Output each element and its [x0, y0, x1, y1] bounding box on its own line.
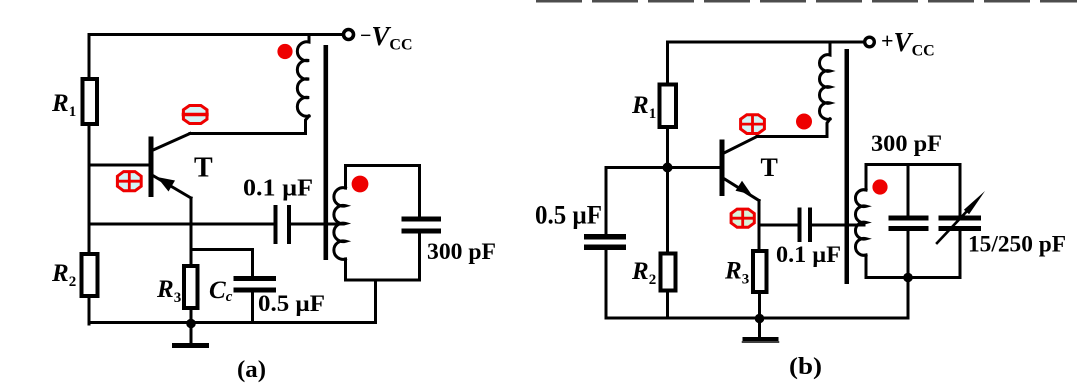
svg-text:(b): (b): [789, 354, 822, 380]
svg-text:T: T: [194, 153, 213, 184]
annotation plus symbol (b) emitter: [731, 209, 754, 227]
wire: (a) collector wire to transformer: [190, 116, 309, 134]
wire: (b) R2 top vertical: [666, 168, 669, 254]
resistor R2 (a): [82, 254, 98, 296]
polarity dot (b) primary: [796, 114, 812, 130]
wire: (a) emitter vertical: [190, 198, 193, 266]
wire: (b) emitter bus to coupling cap: [759, 224, 798, 227]
junction dot (a) ground node: [186, 319, 196, 329]
svg-text:0.1 µF: 0.1 µF: [776, 242, 841, 267]
resistor R1 (b): [660, 85, 677, 128]
tank circuit frame (a): [346, 166, 420, 281]
wire: (a) tank bottom stub: [374, 280, 377, 323]
wire: (a) base bus to coupling cap: [89, 223, 274, 226]
variable capacitor 15/250pF (b): [937, 191, 985, 243]
tank circuit frame (b): [866, 165, 960, 278]
resistor R3 (b): [753, 251, 767, 292]
transformer primary coil (a): [297, 35, 309, 117]
wire: (b) tank bottom stub: [907, 278, 910, 319]
wire: (b) emitter vertical: [758, 201, 761, 252]
wire: (b) R2 bottom to rail: [666, 291, 669, 319]
ground (b): [743, 319, 779, 343]
capacitor 0.1uF (b): [798, 208, 813, 243]
terminal: (a) -Vcc open circle: [344, 30, 354, 40]
resistor R3 (a): [184, 266, 198, 308]
wire: (b) R1 bottom to base node: [666, 127, 669, 168]
svg-text:15/250 pF: 15/250 pF: [968, 232, 1066, 257]
junction dot (b) base divider node: [663, 163, 673, 173]
wire: (a) base wire: [89, 164, 150, 167]
svg-text:T: T: [761, 153, 778, 182]
wire: (a) left vertical top segment: [88, 35, 91, 80]
resistor R1 (a): [83, 79, 98, 124]
wire: (b) R1 top vertical: [666, 42, 669, 85]
wire: (a) emitter branch to Cc: [191, 250, 253, 277]
svg-text:0.1 µF: 0.1 µF: [243, 176, 313, 202]
annotation plus symbol (a): [117, 172, 141, 191]
polarity dot (b) secondary: [872, 179, 887, 194]
wire: (b) left branch vertical to 0.5uF: [605, 168, 608, 235]
terminal: (b) +Vcc open circle: [865, 37, 875, 47]
transistor T (a) PNP: [151, 134, 191, 199]
svg-text:0.5 µF: 0.5 µF: [258, 291, 325, 316]
junction dot (b) ground node: [755, 314, 765, 324]
ground (a): [172, 324, 209, 349]
capacitor 300pF (a): [402, 217, 442, 234]
transformer primary coil (b): [819, 42, 830, 119]
wire: (b) 0.5uF bottom to rail: [605, 250, 608, 318]
annotation plus symbol (b) collector: [741, 115, 765, 134]
transformer core bar (b): [845, 49, 850, 284]
svg-text:300 pF: 300 pF: [871, 131, 942, 156]
junction dot (b) tank bottom node: [903, 273, 913, 283]
svg-text:(a): (a): [237, 357, 266, 383]
polarity dot (a) primary: [277, 44, 292, 59]
svg-text:300 pF: 300 pF: [427, 239, 496, 264]
wire: (b) base wire: [606, 166, 720, 169]
transformer core bar (a): [324, 45, 329, 260]
wire: (b) R3 bottom to rail: [758, 292, 761, 318]
wire: (a) top supply rail: [89, 33, 342, 36]
capacitor 0.5uF (b): [584, 234, 626, 250]
polarity dot (a) secondary: [352, 176, 369, 193]
wire: (a) Cc bottom to rail: [251, 293, 254, 323]
top dashed rule: [536, 0, 1077, 2]
wire: (a) R3 bottom to rail: [190, 308, 193, 323]
wire: (a) left vertical middle segment: [88, 124, 91, 254]
wire: (b) bottom rail: [606, 317, 908, 320]
wire: (b) top supply rail: [668, 41, 863, 44]
capacitor Cc (a): [234, 276, 277, 293]
wire: (a) bottom rail: [89, 321, 376, 324]
capacitor 0.1uF (a): [274, 205, 292, 244]
wire: (b) cap to tank tap: [812, 224, 864, 227]
transformer secondary coil (b): [855, 190, 866, 256]
capacitor 300pF branch (b): [889, 165, 929, 278]
wire: (b) collector wire to transformer: [757, 119, 830, 137]
svg-text:0.5 µF: 0.5 µF: [535, 201, 602, 230]
resistor R2 (b): [661, 254, 676, 291]
wire: (a) left vertical bottom segment: [88, 296, 91, 324]
wire: (a) cap to tank tap: [291, 223, 343, 226]
transformer secondary coil (a): [334, 188, 346, 260]
transistor T (b) NPN: [722, 137, 759, 201]
annotation minus symbol (a): [183, 106, 207, 124]
